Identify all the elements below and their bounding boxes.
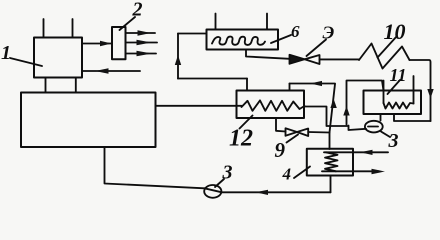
valve 9 right triangle (297, 129, 308, 137)
pin right on box 1 (72, 19, 74, 38)
leader label E (307, 40, 327, 57)
element 10 zigzag (359, 44, 410, 69)
svg-text:11: 11 (390, 65, 407, 85)
HX11 left top pipe (383, 81, 385, 104)
wire valve9 to junction (308, 131, 329, 134)
wire outlet a3 of device2 (126, 53, 157, 55)
wire bigbox to HX12 (156, 105, 242, 107)
arrowhead a3 (137, 51, 153, 56)
HX11 bottom pipe to pump (380, 114, 382, 121)
HX4 bottom pipe (330, 176, 332, 193)
leader label 4 (294, 167, 310, 179)
svg-text:12: 12 (229, 126, 253, 152)
pump 3 left (204, 185, 221, 198)
pedestal left wall (45, 78, 47, 93)
arrowhead riser R1 up (330, 99, 336, 109)
svg-text:10: 10 (384, 19, 406, 44)
svg-text:3: 3 (222, 162, 233, 184)
drop wire into HX12 top left (246, 79, 248, 91)
riser wire of HX6 loop (177, 34, 179, 79)
wire valve to element 10 (320, 58, 360, 60)
wire outlet a1 of device2 (126, 32, 156, 34)
pump 3 left through line (205, 188, 222, 192)
svg-text:9: 9 (275, 138, 286, 162)
svg-text:2: 2 (132, 0, 143, 21)
arrowhead HX4 outlet right (372, 169, 386, 174)
HX11 right top pipe (413, 76, 415, 104)
pedestal right wall (75, 78, 77, 93)
svg-text:4: 4 (282, 165, 292, 184)
drop wire into HX12 top right (289, 84, 291, 91)
heat exchanger 6 shell (207, 30, 279, 50)
arrowhead riser B up (343, 106, 349, 116)
bottom wire of HX6 loop (178, 78, 247, 80)
svg-text:6: 6 (291, 22, 300, 41)
svg-text:Э: Э (323, 23, 335, 43)
HX12 bottom pipe to valve 9 (276, 118, 286, 132)
wire box1 to device2 (82, 43, 112, 45)
device 2 (112, 27, 126, 59)
leader label 10 (378, 36, 398, 58)
heat exchanger 12 shell (237, 91, 305, 119)
HX11 coil (384, 103, 414, 109)
wire inlet into box1 (83, 70, 140, 72)
arrowhead HX12 top left (310, 81, 322, 86)
pump 3 right inner line (368, 126, 378, 128)
arrowhead into box1 (95, 68, 109, 73)
leader label 11 (388, 80, 401, 94)
riser wire valve9 junction to top (330, 84, 336, 133)
HX12 coil (242, 100, 305, 110)
big base box (21, 93, 156, 148)
pin left on box 1 (43, 19, 45, 38)
leader label 12 (240, 116, 253, 129)
wire element10 to right corner (410, 60, 431, 121)
engine box 1 (34, 38, 82, 78)
leader label 3 left (215, 179, 224, 187)
HX4 inlet wire (324, 151, 388, 153)
HX4 coil (325, 152, 338, 171)
leader label 1 (10, 58, 42, 66)
arrowhead riser up (175, 55, 181, 65)
HX12 coil outlet path (305, 107, 367, 131)
leader label 6 (271, 35, 291, 43)
bottom loop right wire (221, 191, 330, 193)
wire outlet a2 of device2 (126, 42, 158, 44)
HX6 top pipe right (266, 14, 268, 30)
arrowhead a1 (138, 30, 152, 35)
valve 9 left triangle (286, 128, 298, 136)
top wire into HX6 (178, 33, 207, 35)
bottom loop drop from big box (105, 147, 205, 188)
arrowhead HX4 inlet left (360, 150, 373, 155)
arrowhead box1 to device2 (100, 41, 112, 46)
leader label 9 (287, 135, 299, 143)
leader label 3 right (381, 132, 390, 138)
arrowhead a2 (137, 40, 152, 45)
riser wire pump3 to HX11 (347, 81, 384, 125)
leader label 2 (120, 17, 136, 30)
wire HX12 top arrow line (290, 83, 336, 85)
valve E left triangle (290, 55, 305, 64)
HX6 outlet step wire (246, 50, 290, 59)
svg-text:3: 3 (388, 130, 399, 152)
heat exchanger 4 shell (307, 149, 353, 176)
step wire under HX11 (394, 114, 431, 121)
wire junction down to HX4 (329, 133, 331, 150)
HX4 outlet wire (322, 170, 379, 172)
svg-text:1: 1 (1, 42, 11, 64)
valve E right triangle (305, 55, 320, 64)
HX6 top pipe left (215, 14, 217, 30)
pump 3 right (365, 121, 383, 133)
arrowhead bottom loop left (256, 190, 269, 195)
HX6 coil (212, 37, 265, 45)
arrowhead down right corner (427, 89, 433, 99)
heat exchanger 11 shell (364, 91, 422, 115)
